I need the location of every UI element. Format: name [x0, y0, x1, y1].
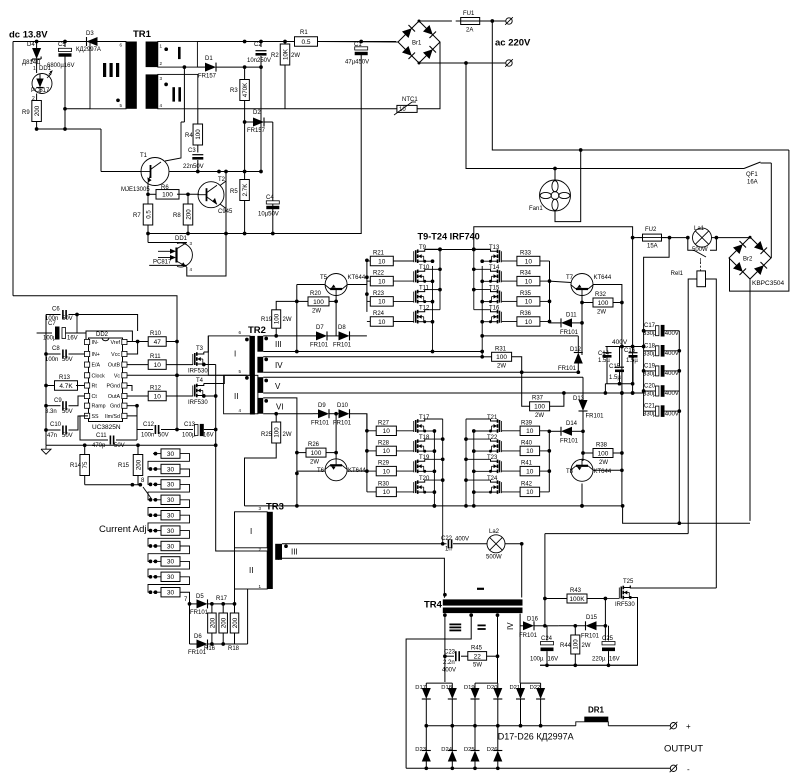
svg-text:TR3: TR3	[266, 502, 284, 513]
wire opto pin4	[149, 170, 228, 276]
svg-text:D16: D16	[527, 617, 539, 623]
wire row VI top	[263, 398, 299, 506]
svg-text:2W: 2W	[310, 460, 319, 466]
wire C2 column	[259, 56, 263, 172]
diode D5 FR101	[190, 594, 237, 616]
relay contact bypass	[688, 238, 717, 257]
svg-text:16V: 16V	[67, 336, 78, 342]
svg-text:-: -	[687, 765, 690, 774]
svg-text:220µ: 220µ	[592, 657, 606, 663]
svg-text:100µ: 100µ	[530, 657, 544, 663]
svg-text:D4: D4	[27, 42, 35, 48]
transistor T5 KT644	[320, 274, 366, 297]
svg-text:2W: 2W	[283, 317, 292, 323]
resistor R17 200	[216, 596, 228, 644]
resistor R6 100	[148, 185, 199, 199]
svg-text:C12: C12	[143, 422, 155, 428]
wire dc+ top rail	[13, 42, 126, 296]
svg-text:Ilm/Sd: Ilm/Sd	[105, 414, 120, 420]
svg-text:30: 30	[167, 497, 175, 504]
svg-text:22: 22	[474, 654, 482, 661]
mosfet T25 IRF530	[615, 579, 635, 608]
node dc rail junctions	[35, 40, 67, 44]
svg-text:10: 10	[378, 299, 386, 306]
svg-text:C3: C3	[188, 148, 196, 154]
svg-text:1.5µ: 1.5µ	[609, 375, 621, 381]
svg-text:R37: R37	[532, 396, 544, 402]
wire Ilm	[127, 406, 137, 416]
capacitor C14 1.5µ	[598, 347, 612, 384]
capacitor C8 100n50V	[45, 346, 88, 363]
wire row 533.6	[545, 533, 688, 535]
svg-text:400V: 400V	[665, 351, 679, 357]
switch wiper 8	[141, 478, 152, 500]
wire T7 emitter down	[580, 296, 584, 355]
terminal ac N	[505, 59, 513, 67]
svg-text:C15: C15	[609, 364, 621, 370]
wire R5 bottom	[244, 200, 246, 234]
capacitor C2 10n250V	[247, 42, 271, 68]
wire gnd rail	[46, 443, 218, 447]
svg-text:Rt: Rt	[92, 384, 98, 390]
resistor R25 100 2W	[244, 412, 291, 506]
wire T4 drain	[204, 375, 225, 383]
svg-text:T10: T10	[419, 265, 430, 271]
resistor R8 200	[173, 194, 193, 233]
svg-text:T17: T17	[419, 415, 430, 421]
wire top dc bus	[474, 227, 635, 250]
svg-text:FR101: FR101	[558, 366, 577, 372]
svg-text:400V: 400V	[442, 668, 456, 674]
capacitor C5 6800µ16V	[47, 42, 74, 130]
svg-text:30: 30	[167, 528, 175, 535]
breaker QF1 16A	[744, 162, 771, 258]
wire T3 drain	[204, 336, 209, 352]
diodes D17-D22 КД2997А	[415, 683, 545, 727]
capacitor C16 1.5µ	[624, 347, 638, 384]
svg-text:FR157: FR157	[247, 128, 266, 134]
diode D15 FR101	[559, 615, 606, 640]
resistor R5 2.7K	[230, 172, 249, 201]
wire FU1 to terminal	[475, 19, 506, 23]
capacitor C1 47µ450V	[345, 40, 396, 234]
svg-text:R2: R2	[271, 53, 279, 59]
wire TR4 top pins	[444, 544, 521, 598]
svg-text:R22: R22	[373, 271, 385, 277]
diode D10 FR101	[333, 403, 367, 431]
svg-text:2W: 2W	[599, 460, 608, 466]
svg-text:T7: T7	[566, 275, 574, 281]
wire T8 bottom	[580, 484, 584, 508]
svg-text:2W: 2W	[497, 364, 506, 370]
diode D13 FR101	[573, 377, 604, 433]
transformer TR3 winding III	[275, 544, 297, 560]
wire Br1 top to FU1	[418, 20, 452, 23]
wire T7 collector right	[593, 285, 624, 506]
svg-text:5W: 5W	[473, 663, 482, 669]
svg-text:R44: R44	[560, 643, 572, 649]
svg-text:La2: La2	[489, 529, 500, 535]
resistor R12 10	[127, 386, 193, 401]
wire right gate bus	[548, 261, 552, 323]
TR2 winding III phase dot	[264, 337, 281, 349]
svg-text:R45: R45	[471, 646, 483, 652]
svg-text:Vcc: Vcc	[111, 352, 120, 358]
wire Vref loop box	[86, 331, 132, 342]
svg-text:100n: 100n	[141, 433, 154, 439]
svg-text:IN-: IN-	[92, 340, 99, 346]
capacitor C7 100µ16V	[37, 315, 86, 342]
svg-text:200: 200	[34, 105, 41, 116]
wire row III top	[263, 335, 316, 337]
svg-text:47: 47	[154, 339, 162, 346]
svg-text:22n50V: 22n50V	[183, 164, 204, 170]
resistor R16 200	[204, 604, 216, 652]
svg-text:10µ50V: 10µ50V	[258, 212, 279, 218]
svg-text:Fan1: Fan1	[529, 206, 543, 212]
svg-text:10: 10	[383, 428, 391, 435]
svg-text:Current Adj: Current Adj	[99, 524, 147, 535]
wire fan bottom loop	[555, 150, 581, 222]
svg-text:ac 220V: ac 220V	[495, 38, 531, 49]
svg-text:100µ: 100µ	[43, 336, 57, 342]
transistor T2 C945	[198, 177, 234, 215]
terminal ac L	[505, 17, 513, 25]
wire La1 right	[712, 236, 752, 240]
wire aux bottom rail	[148, 232, 361, 236]
bridge Br2 KBPC3504	[729, 237, 785, 287]
resistor R43 100K	[543, 588, 607, 603]
resistor R10 47	[138, 331, 179, 346]
wire T1 emitter	[146, 183, 150, 206]
svg-text:PGnd: PGnd	[106, 384, 120, 390]
svg-text:PC817: PC817	[31, 88, 50, 94]
lamp La1 500W	[692, 226, 712, 253]
svg-text:50V: 50V	[62, 357, 73, 363]
svg-text:FU2: FU2	[645, 227, 657, 233]
svg-text:100: 100	[311, 450, 322, 457]
wire bottom rail	[406, 767, 670, 769]
svg-text:2W: 2W	[582, 643, 591, 649]
svg-text:D2: D2	[253, 110, 261, 116]
resistor R15 200	[118, 445, 143, 485]
wire TR1 pin1 row	[197, 40, 262, 44]
wire TR3 III bottom row	[279, 558, 445, 597]
svg-text:T11: T11	[419, 285, 430, 291]
svg-text:16V: 16V	[203, 433, 214, 439]
svg-text:dc 13.8V: dc 13.8V	[9, 30, 48, 41]
svg-text:C8: C8	[52, 346, 60, 352]
svg-text:R19: R19	[261, 317, 273, 323]
svg-text:50V: 50V	[62, 409, 73, 415]
wire TR3 III top row	[282, 543, 447, 545]
svg-text:10: 10	[525, 258, 533, 265]
svg-text:2.7K: 2.7K	[242, 183, 249, 197]
svg-text:C6: C6	[52, 307, 60, 313]
transformer TR1 winding I box	[158, 42, 198, 68]
svg-text:R21: R21	[373, 251, 385, 257]
wire D9D10 node down	[334, 414, 338, 459]
transformer TR2 winding I box	[208, 330, 250, 375]
wire block bottom rail	[540, 663, 638, 667]
wire ac line2	[466, 63, 744, 170]
wire diode pair rails	[426, 682, 540, 684]
svg-text:10: 10	[383, 448, 391, 455]
svg-text:10: 10	[378, 278, 386, 285]
svg-text:T4: T4	[196, 378, 204, 384]
svg-text:T8: T8	[566, 469, 574, 475]
svg-text:10: 10	[525, 278, 533, 285]
svg-text:500W: 500W	[486, 555, 502, 561]
wire T5 right	[348, 284, 367, 286]
svg-text:75: 75	[82, 461, 89, 468]
capacitor C9 3.3n50V	[45, 396, 88, 415]
transformer TR3 winding I box	[235, 506, 268, 552]
svg-text:16A: 16A	[747, 180, 758, 186]
svg-text:R41: R41	[521, 461, 533, 467]
resistor R4 100	[185, 124, 203, 145]
wire T6 base row	[297, 470, 325, 472]
wire Br1 bottom row	[418, 61, 506, 65]
svg-text:100µ: 100µ	[182, 433, 196, 439]
svg-text:FR101: FR101	[311, 421, 330, 427]
svg-text:OUTPUT: OUTPUT	[664, 744, 703, 755]
svg-text:400V: 400V	[665, 331, 679, 337]
capacitor C22 1µ400V	[441, 536, 488, 553]
svg-text:2A: 2A	[466, 28, 473, 34]
diode D2 FR157	[243, 110, 266, 134]
svg-text:200: 200	[221, 617, 228, 628]
svg-text:D5: D5	[196, 594, 204, 600]
svg-text:16V: 16V	[548, 657, 559, 663]
svg-text:OutB: OutB	[108, 363, 121, 369]
svg-text:D12: D12	[570, 347, 582, 353]
svg-text:IV: IV	[506, 622, 515, 630]
resistor R13 4.7K	[46, 375, 88, 390]
svg-text:T22: T22	[487, 435, 498, 441]
svg-text:16V: 16V	[609, 657, 620, 663]
svg-text:400V: 400V	[665, 411, 679, 417]
svg-text:C14: C14	[598, 351, 610, 357]
wire row VI bottom	[263, 413, 313, 415]
svg-text:R43: R43	[570, 588, 582, 594]
svg-text:C10: C10	[50, 422, 62, 428]
svg-text:R3: R3	[230, 88, 238, 94]
svg-text:30: 30	[167, 466, 175, 473]
wire T5 base row	[295, 285, 325, 352]
resistor R26 100 2W	[297, 442, 336, 466]
svg-text:100: 100	[598, 300, 609, 307]
svg-text:100: 100	[573, 639, 580, 650]
transformer TR3 core	[267, 512, 273, 589]
svg-text:R7: R7	[133, 213, 141, 219]
svg-text:Br2: Br2	[743, 257, 753, 263]
resistor R20 100 2W	[297, 291, 336, 315]
resistor R32 100 2W	[582, 292, 622, 316]
transformer TR4 primary mark	[443, 589, 484, 597]
svg-text:Rel1: Rel1	[671, 271, 684, 277]
svg-text:II: II	[249, 566, 253, 575]
svg-text:R40: R40	[521, 440, 533, 446]
wire Rel1 left	[688, 279, 697, 534]
svg-text:R35: R35	[520, 291, 532, 297]
wire to plus terminal	[608, 725, 670, 727]
svg-text:I: I	[234, 350, 236, 359]
svg-text:I: I	[250, 527, 252, 536]
svg-text:R9: R9	[22, 110, 30, 116]
svg-text:R36: R36	[520, 311, 532, 317]
wire row V bottom	[263, 391, 643, 395]
wire R18 top riser	[234, 512, 236, 604]
svg-text:FR101: FR101	[519, 633, 538, 639]
svg-text:10: 10	[383, 489, 391, 496]
svg-text:R38: R38	[596, 443, 608, 449]
svg-text:R6: R6	[161, 185, 169, 191]
diode D9 FR101	[311, 403, 339, 427]
svg-text:T12: T12	[419, 306, 430, 312]
svg-text:T1: T1	[140, 153, 148, 159]
svg-text:R4: R4	[185, 133, 193, 139]
fuse FU1 2A	[456, 11, 485, 34]
svg-text:10n250V: 10n250V	[247, 58, 271, 64]
wire right lower gate bus	[547, 431, 551, 492]
wire row III bottom	[263, 350, 484, 354]
fuse FU2 15A	[633, 227, 667, 250]
wire C13 node down	[215, 365, 217, 446]
mosfets T17-T20 IRF740	[414, 415, 430, 494]
wire fan top	[554, 169, 556, 181]
svg-text:V: V	[275, 382, 281, 391]
resistor R7 0.5	[133, 204, 153, 234]
svg-text:T16: T16	[489, 306, 500, 312]
svg-text:T23: T23	[487, 455, 498, 461]
wire TR1 bottom rail to NTC	[198, 108, 397, 110]
svg-text:30: 30	[167, 590, 175, 597]
resistor R45 22 5W	[468, 646, 500, 669]
svg-text:2W: 2W	[597, 310, 606, 316]
svg-text:T19: T19	[419, 455, 430, 461]
svg-text:30: 30	[167, 574, 175, 581]
wire TR4 pin III down	[443, 615, 447, 682]
svg-text:1: 1	[33, 66, 36, 72]
wire T21-T24 buses	[464, 419, 490, 508]
transformer TR1 winding II box	[158, 74, 198, 108]
terminal output plus	[670, 722, 691, 731]
svg-text:Ct: Ct	[92, 394, 98, 400]
resistor R31 100 2W	[482, 347, 532, 407]
wire T2 collector	[220, 172, 226, 186]
svg-text:100: 100	[534, 404, 545, 411]
svg-text:C2: C2	[254, 42, 262, 48]
lamp La2 500W	[486, 529, 505, 561]
svg-text:100: 100	[496, 354, 507, 361]
wire T2 emitter	[220, 204, 226, 234]
wire Vcc pin	[127, 342, 138, 355]
svg-text:C20: C20	[644, 384, 656, 390]
svg-text:FU1: FU1	[463, 11, 475, 17]
svg-text:R8: R8	[173, 213, 181, 219]
wire fu2 vertical	[631, 238, 635, 395]
svg-text:R28: R28	[378, 440, 390, 446]
svg-text:D9: D9	[318, 403, 326, 409]
svg-text:R25: R25	[261, 432, 273, 438]
svg-text:2.2n: 2.2n	[443, 660, 455, 666]
capacitor C12 100n50V	[137, 422, 177, 439]
svg-text:330µ: 330µ	[643, 331, 657, 337]
svg-text:C16: C16	[624, 348, 636, 354]
wire gate-D15 riser	[604, 599, 606, 641]
svg-text:D11: D11	[566, 313, 577, 319]
svg-text:D7: D7	[316, 325, 324, 331]
svg-text:C11: C11	[96, 433, 107, 439]
svg-text:D6: D6	[194, 634, 202, 640]
svg-text:4.7K: 4.7K	[59, 383, 73, 390]
svg-text:C24: C24	[541, 636, 553, 642]
wire T25 gate	[605, 598, 619, 600]
svg-text:100: 100	[274, 427, 281, 438]
svg-text:10: 10	[525, 299, 533, 306]
TR4 winding III mark	[443, 613, 461, 630]
resistor R37 100 2W	[530, 393, 564, 419]
svg-text:400V: 400V	[455, 537, 469, 543]
resistor R14 75	[70, 445, 89, 485]
wire D8 to gate bus	[350, 335, 367, 337]
svg-text:100: 100	[598, 450, 609, 457]
wire FU2 to La1	[661, 236, 690, 240]
svg-text:10: 10	[378, 319, 386, 326]
svg-text:R34: R34	[520, 271, 532, 277]
svg-text:D14: D14	[566, 421, 578, 427]
mosfets T21-T24 + R39-R42	[487, 415, 549, 497]
svg-text:II: II	[234, 392, 238, 401]
svg-text:D17-D26 КД2997А: D17-D26 КД2997А	[498, 732, 574, 742]
svg-text:T13: T13	[489, 245, 500, 251]
wire D2 to C4	[264, 122, 273, 200]
diode D6 FR101	[188, 604, 248, 656]
svg-text:C4: C4	[266, 195, 274, 201]
wire 400V bottom row	[605, 382, 632, 393]
svg-text:R10: R10	[150, 331, 162, 337]
svg-text:100K: 100K	[569, 596, 585, 603]
resistor R44 100 2W	[560, 626, 591, 666]
transformer TR3 winding II box	[235, 551, 268, 589]
wire D15 row	[545, 624, 608, 628]
svg-text:KT644: KT644	[348, 275, 366, 281]
svg-text:TR2: TR2	[248, 325, 266, 336]
resistor R9 200	[22, 94, 41, 130]
transformer TR1 primary winding box	[90, 42, 126, 109]
svg-text:1n: 1n	[445, 547, 452, 553]
svg-text:R1: R1	[300, 30, 308, 36]
svg-text:Gnd: Gnd	[110, 404, 120, 410]
wire T9-T12 buses	[425, 247, 442, 351]
svg-text:КД2997А: КД2997А	[76, 47, 101, 53]
svg-text:La1: La1	[694, 226, 705, 232]
svg-text:C19: C19	[644, 363, 656, 369]
svg-text:400V: 400V	[665, 371, 679, 377]
svg-text:2W: 2W	[535, 413, 544, 419]
svg-text:200: 200	[135, 459, 142, 470]
wire Br1 left	[318, 41, 399, 44]
resistor R38 100 2W	[583, 443, 622, 467]
svg-text:R32: R32	[595, 292, 607, 298]
wire dc to Vcc feed	[13, 296, 177, 342]
wire top rail 249.5	[425, 248, 491, 252]
svg-text:47µ450V: 47µ450V	[345, 60, 369, 66]
wire ac loop right	[730, 150, 789, 291]
svg-text:D10: D10	[337, 403, 349, 409]
svg-text:2W: 2W	[283, 432, 292, 438]
